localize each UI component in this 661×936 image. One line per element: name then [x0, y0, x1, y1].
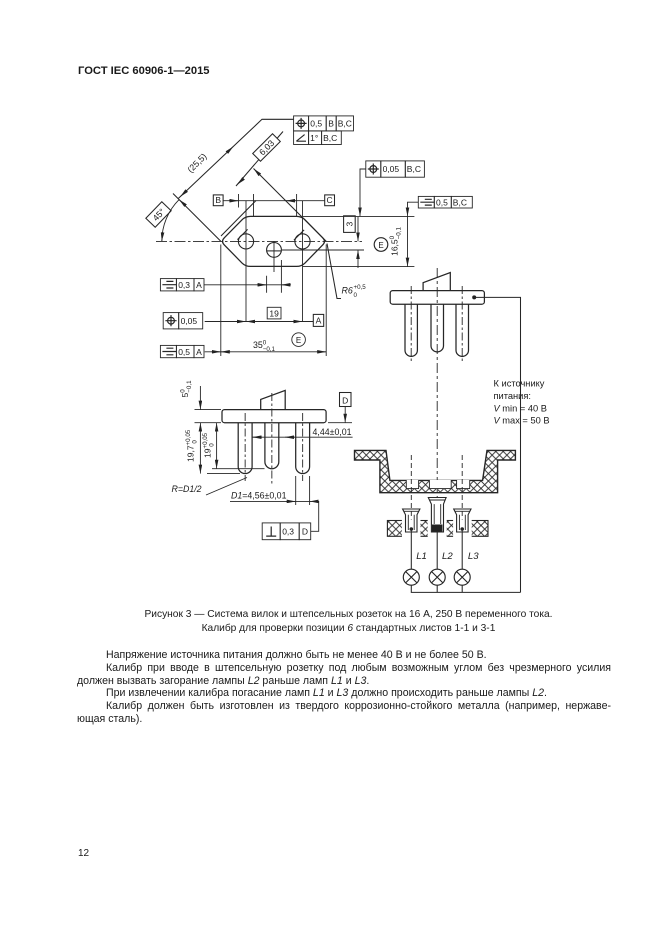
dimension 5 arrows — [199, 386, 201, 400]
lamp L3 — [454, 569, 470, 585]
lamp L1 — [403, 569, 419, 585]
svg-text:L2: L2 — [442, 551, 453, 562]
svg-text:D: D — [342, 395, 348, 405]
header: document code — [78, 65, 210, 77]
svg-text:D: D — [302, 527, 308, 537]
diagonal near upper-left chamfer — [221, 201, 256, 237]
R6 leader — [327, 244, 341, 299]
extension line earth pin tip 19 — [212, 468, 265, 470]
pin slot right in socket floor — [457, 480, 470, 489]
label (25,5) — [185, 151, 208, 174]
B-C dimension line — [223, 200, 325, 202]
svg-text:D1=4,56±0,01: D1=4,56±0,01 — [231, 491, 287, 501]
dimension D1 line — [230, 500, 319, 502]
svg-text:(25,5): (25,5) — [185, 151, 208, 174]
gauge body plate right view — [390, 291, 484, 305]
svg-text:B,C: B,C — [407, 164, 421, 174]
svg-text:B,C: B,C — [453, 197, 467, 207]
contact holder strip hatched — [387, 521, 488, 537]
svg-text:0,3: 0,3 — [282, 527, 294, 537]
dimension 19,7 line — [199, 423, 201, 432]
dimension 3 vertical — [357, 217, 359, 232]
gauge earth pin front view — [265, 423, 279, 469]
gauge left pin front view — [238, 423, 252, 474]
diagonal chamfer extension right — [254, 169, 327, 242]
label D1 — [231, 491, 287, 501]
figure caption line 2 — [68, 623, 629, 634]
dimension 35 line — [205, 351, 327, 353]
datum target C box — [325, 195, 335, 206]
earth hole edge extension lines — [267, 260, 282, 293]
pin centre dashed lines through socket — [410, 455, 412, 520]
left pin hole — [238, 234, 253, 249]
svg-text:B,C: B,C — [323, 133, 337, 143]
extension line plate bottom right — [328, 422, 352, 424]
left hole centre line vertical — [245, 201, 247, 322]
dimension (25,5) diagonal — [178, 119, 293, 198]
svg-text:50−0,1: 50−0,1 — [180, 380, 194, 398]
svg-text:+0,5: +0,5 — [354, 284, 367, 291]
leader datum D — [344, 407, 346, 414]
gauge earth pin right view — [431, 304, 444, 352]
svg-text:16,50−0,1: 16,50−0,1 — [389, 227, 403, 256]
right pin hole — [295, 234, 310, 249]
svg-text:V min = 40 В: V min = 40 В — [494, 404, 548, 414]
right contact tube — [454, 509, 471, 532]
label box 3 — [344, 216, 356, 233]
right hole centre line vertical — [302, 201, 304, 322]
tolerance frame angularity 1 deg B,C — [294, 131, 342, 145]
tolerance frame symmetry 0,3 A — [160, 279, 204, 291]
plug face outline — [223, 216, 325, 266]
pin slot left in socket floor — [406, 480, 418, 489]
tolerance frame perpendicularity 0,3 D — [262, 523, 311, 540]
svg-text:V max = 50 В: V max = 50 В — [494, 416, 550, 426]
gauge right pin front view — [296, 423, 310, 474]
datum frame A right of 19 — [313, 314, 323, 326]
leader 0,3 A to earth hole — [204, 284, 290, 286]
extension line pin tip 19,7 — [207, 473, 240, 475]
extension lines D1 — [296, 476, 310, 505]
left contact tube — [403, 509, 420, 532]
tangent tick left hole — [237, 229, 247, 239]
socket cross-section body hatched — [355, 450, 516, 492]
tolerance frame position 0,5 B B,C — [294, 116, 354, 131]
45 degree label box — [146, 202, 171, 228]
label 5 — [180, 380, 194, 398]
wire L1 lamp — [410, 529, 412, 569]
tolerance frame symmetry 0,5 B,C — [418, 196, 472, 208]
leader from 0,05 frame down to top edge — [360, 169, 366, 207]
dimension 19 line front view — [216, 423, 218, 432]
svg-text:19+0,050: 19+0,050 — [202, 432, 216, 458]
svg-text:L3: L3 — [468, 551, 479, 562]
svg-text:0,5: 0,5 — [178, 347, 190, 357]
tolerance frame position 0,05 left — [163, 313, 203, 329]
dimension 19 line — [205, 321, 314, 323]
wire L2 lamp — [436, 532, 438, 569]
tangent tick right hole — [294, 230, 304, 240]
datum circle E left — [292, 333, 306, 347]
svg-text:0,3: 0,3 — [178, 280, 190, 290]
extension ticks near B — [239, 194, 297, 217]
label box 19 — [267, 307, 281, 319]
earth hole centre extension right — [282, 249, 364, 251]
svg-text:A: A — [196, 280, 202, 290]
svg-text:A: A — [196, 347, 202, 357]
tolerance frame symmetry 0,5 A — [160, 345, 204, 357]
svg-text:0,5: 0,5 — [310, 119, 322, 129]
lamp L2 — [429, 569, 445, 585]
earth slot in socket floor — [429, 480, 451, 489]
main centre dash-dot line — [436, 268, 438, 497]
svg-text:E: E — [378, 241, 383, 250]
diagonal P1 chamfer extension — [173, 194, 221, 242]
svg-text:B: B — [215, 195, 221, 205]
label L2 — [442, 551, 453, 562]
extension line 35 right — [325, 245, 327, 357]
label L3 — [468, 551, 479, 562]
svg-text:К источнику: К источнику — [494, 379, 545, 389]
gauge handle tab right view — [423, 273, 450, 291]
svg-text:C: C — [327, 195, 333, 205]
earth contact filled base — [432, 525, 443, 532]
label 19,7 — [185, 429, 199, 462]
wire L3 lamp — [461, 529, 463, 569]
45 degree arc — [162, 200, 179, 242]
gauge right pin right view — [456, 304, 469, 356]
pin centre dashed lines right view — [410, 286, 412, 364]
wire connection dot on plate — [472, 295, 476, 299]
svg-text:B,C: B,C — [338, 119, 352, 129]
contact connection dots — [410, 527, 414, 531]
pin centre dashed lines front view — [244, 413, 246, 481]
bottom edge extension line right — [303, 266, 414, 268]
leader R=D1/2 — [206, 478, 247, 496]
wire from plate to right bus — [474, 297, 520, 592]
svg-text:0,05: 0,05 — [383, 164, 400, 174]
dimension 16,5 line — [407, 216, 409, 257]
svg-text:4,44±0,01: 4,44±0,01 — [313, 427, 352, 437]
label power source — [494, 379, 550, 426]
datum frame D — [340, 393, 352, 407]
white clearance around tubes — [402, 520, 421, 538]
svg-text:0,05: 0,05 — [181, 316, 198, 326]
svg-text:E: E — [296, 336, 301, 345]
extension lines 5 dim — [195, 410, 222, 423]
label 35 — [253, 339, 276, 353]
earth contact tube — [428, 498, 446, 533]
svg-text:19: 19 — [269, 308, 279, 318]
top edge extension line right — [303, 215, 414, 217]
svg-text:A: A — [316, 316, 322, 326]
svg-text:19,7+0,050: 19,7+0,050 — [185, 429, 199, 462]
tolerance frame position 0,05 B,C — [366, 161, 425, 177]
dimension 6,03 diagonal — [236, 132, 283, 187]
horizontal centre line — [156, 240, 362, 242]
gauge body plate front view — [222, 410, 326, 423]
svg-text:45°: 45° — [151, 207, 167, 224]
earth hole chord — [267, 250, 282, 252]
earth hole centre line vertical — [273, 241, 275, 272]
body paragraphs — [77, 649, 611, 726]
gauge handle tab front view — [261, 390, 286, 409]
connector D1 to frame — [311, 501, 319, 531]
svg-text:3: 3 — [344, 221, 354, 226]
svg-text:L1: L1 — [416, 551, 427, 562]
earth pin hole — [267, 243, 282, 258]
svg-text:питания:: питания: — [494, 391, 532, 401]
svg-text:0: 0 — [354, 292, 358, 299]
label R6 — [342, 284, 367, 299]
svg-text:1°: 1° — [310, 133, 318, 143]
label L1 — [416, 551, 427, 562]
label 19 front view — [202, 432, 216, 458]
svg-text:0,5: 0,5 — [436, 197, 448, 207]
dimension 4,44 line — [253, 436, 353, 438]
svg-text:350−0,1: 350−0,1 — [253, 339, 276, 353]
svg-text:R6: R6 — [342, 286, 353, 296]
datum target B box — [213, 195, 223, 206]
extension line 35 left — [220, 245, 222, 357]
label 16,5 — [389, 227, 403, 256]
svg-text:R=D1/2: R=D1/2 — [172, 484, 202, 494]
label box 6,03 — [253, 134, 281, 162]
page number — [78, 848, 89, 859]
datum circle E right — [374, 238, 388, 252]
figure caption line 1 — [68, 609, 629, 620]
svg-text:B: B — [328, 119, 334, 129]
bottom bus wire — [411, 585, 520, 592]
gauge left pin right view — [405, 304, 417, 356]
leader from symmetry frame to 16,5 dimension — [408, 202, 419, 207]
